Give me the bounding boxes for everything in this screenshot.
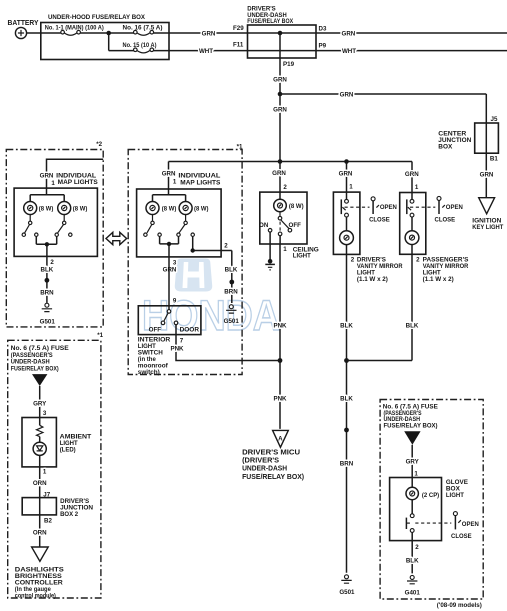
svg-text:OFF: OFF <box>149 327 162 334</box>
svg-text:FUSE/RELAY BOX): FUSE/RELAY BOX) <box>384 423 438 430</box>
svg-text:2: 2 <box>224 242 228 249</box>
svg-text:2: 2 <box>283 184 287 191</box>
svg-text:GRN: GRN <box>273 107 287 114</box>
wire PNK from pin 1 down to MICU <box>279 236 281 429</box>
wire BLK/BRN to ground <box>46 256 48 303</box>
label dashlights brightness controller <box>15 566 64 599</box>
ambient light box <box>22 418 56 467</box>
bulb passenger's vanity <box>405 217 419 245</box>
svg-text:BLK: BLK <box>225 267 238 274</box>
individual map lights unit box *1 <box>137 189 222 257</box>
label No.6 fuse passenger's under-dash <box>11 345 69 372</box>
svg-text:GRN: GRN <box>480 172 494 179</box>
svg-text:1: 1 <box>349 184 353 191</box>
switch left map light <box>144 215 162 237</box>
svg-text:BLK: BLK <box>406 558 419 565</box>
bulb left map light (8 W) <box>24 202 54 215</box>
wire GRN to interior light switch pin 9 <box>168 257 170 310</box>
wire pin 2 branch BLK <box>193 236 232 303</box>
svg-text:LIGHT: LIGHT <box>446 492 464 499</box>
junction node <box>106 31 111 36</box>
svg-text:CLOSE: CLOSE <box>435 217 456 224</box>
svg-text:(8 W): (8 W) <box>289 203 304 210</box>
ground G501 <box>224 305 240 326</box>
splice node <box>229 280 234 285</box>
wire GRY to ambient light <box>39 386 41 418</box>
svg-text:1: 1 <box>51 180 55 187</box>
switch passenger's vanity (lid) <box>407 199 436 217</box>
svg-text:D3: D3 <box>319 26 327 33</box>
svg-text:FUSE/RELAY BOX: FUSE/RELAY BOX <box>247 18 294 25</box>
svg-text:1: 1 <box>283 246 287 253</box>
wire GRN feed to map lights *1 <box>168 162 170 190</box>
fuse No. 16 (7.5 A) <box>123 25 163 36</box>
svg-text:(8 W): (8 W) <box>194 206 209 213</box>
svg-text:control module): control module) <box>15 592 56 599</box>
svg-text:DOOR: DOOR <box>180 327 200 334</box>
svg-text:WHT: WHT <box>342 48 356 55</box>
wire through junction box <box>39 498 41 515</box>
svg-text:GRY: GRY <box>33 401 47 408</box>
svg-text:(8 W): (8 W) <box>73 206 88 213</box>
svg-text:switch): switch) <box>138 369 160 376</box>
driver's MICU arrow A <box>273 430 289 447</box>
interior light switch box <box>138 306 201 335</box>
svg-text:P9: P9 <box>319 43 327 50</box>
svg-text:1: 1 <box>414 471 418 478</box>
switch left map light <box>22 215 38 237</box>
svg-text:2: 2 <box>415 544 419 551</box>
equivalence double arrow <box>106 232 127 244</box>
bulb left map light (8 W) <box>146 202 176 215</box>
fuse No. 1-1 (MAIN) (100 A) <box>45 25 104 36</box>
dashed box No.6 fuse glove box light ('08-09 models) <box>380 400 483 600</box>
fuse feed arrow (filled) <box>404 431 420 445</box>
svg-text:PNK: PNK <box>170 345 184 352</box>
wire feed tee <box>153 189 186 202</box>
label driver's vanity mirror light <box>357 257 403 284</box>
wire GRN feed into *2 box <box>47 159 104 188</box>
svg-text:WHT: WHT <box>199 48 213 55</box>
svg-text:GRN: GRN <box>273 77 287 84</box>
bulb right map light (8 W) <box>58 202 88 215</box>
ground G501 <box>339 575 355 596</box>
svg-text:GRN: GRN <box>202 31 216 38</box>
dashlights brightness controller arrow <box>32 547 49 561</box>
fuse No. 15 (10 A) <box>123 42 157 53</box>
svg-text:BLK: BLK <box>340 396 353 403</box>
svg-text:(8 W): (8 W) <box>162 206 177 213</box>
svg-text:HONDA: HONDA <box>142 292 280 340</box>
svg-text:G501: G501 <box>40 319 56 326</box>
wire feed tee <box>30 188 64 201</box>
svg-text:BRN: BRN <box>340 461 354 468</box>
wire GRN passenger's vanity branch <box>411 162 413 200</box>
svg-text:(DRIVER'S: (DRIVER'S <box>242 458 279 465</box>
svg-text:PNK: PNK <box>273 323 287 330</box>
node <box>191 248 195 252</box>
svg-text:BOX 2: BOX 2 <box>60 511 79 518</box>
node GRN branch <box>278 92 283 97</box>
wire BLK driver's vanity down <box>346 245 348 573</box>
svg-text:*1: *1 <box>237 144 243 151</box>
svg-text:G501: G501 <box>339 589 355 596</box>
wire BLK link from passenger vanity <box>347 360 413 362</box>
wire WHT row to under-dash box <box>154 50 507 52</box>
wire switch outputs joined to pin 3 <box>160 236 179 257</box>
svg-text:DRIVER'S MICU: DRIVER'S MICU <box>242 449 300 456</box>
switch external OPEN/CLOSE (passenger) <box>435 196 464 223</box>
svg-text:GRN: GRN <box>163 267 177 274</box>
wire battery to fuse row 1 <box>27 32 61 34</box>
bulb glove box light (2 CP) <box>406 478 439 500</box>
bulb right map light (8 W) <box>179 202 208 215</box>
svg-text:FUSE/RELAY BOX): FUSE/RELAY BOX) <box>11 365 59 372</box>
wire BLK to ground <box>411 532 413 573</box>
svg-text:(1.1 W x 2): (1.1 W x 2) <box>357 276 388 283</box>
switch ceiling light ON/OFF <box>259 212 301 236</box>
wire ORN to controller <box>39 515 41 547</box>
ground G501 <box>40 303 56 325</box>
label passenger's vanity mirror light <box>423 257 469 284</box>
dashed box *1 No.6 fuse (ambient light) <box>8 340 101 598</box>
svg-text:CLOSE: CLOSE <box>451 533 472 540</box>
svg-text:J5: J5 <box>491 116 498 123</box>
dashed box *2 (individual map lights variant) <box>6 150 103 327</box>
ground (ceiling light case) <box>265 259 275 270</box>
svg-text:BATTERY: BATTERY <box>8 20 39 27</box>
wire down to center junction box <box>485 94 487 198</box>
svg-text:3: 3 <box>43 410 47 417</box>
svg-text:BLK: BLK <box>41 267 54 274</box>
wire from junction down to row 2 <box>109 33 134 51</box>
ignition key light arrow <box>479 198 495 214</box>
svg-text:No. 1-1 (MAIN) (100 A): No. 1-1 (MAIN) (100 A) <box>45 25 104 32</box>
svg-text:UNDER-HOOD FUSE/RELAY BOX: UNDER-HOOD FUSE/RELAY BOX <box>48 14 146 21</box>
watermark Honda H logo <box>175 259 212 292</box>
dashed box *1 (individual map lights / interior light switch) <box>128 150 242 375</box>
svg-text:ORN: ORN <box>33 530 47 537</box>
svg-text:BLK: BLK <box>340 323 353 330</box>
switch external OPEN/CLOSE (driver) <box>369 197 397 224</box>
ground G401 <box>405 575 421 596</box>
svg-text:GRN: GRN <box>405 171 419 178</box>
svg-text:OPEN: OPEN <box>462 521 480 528</box>
svg-text:LIGHT: LIGHT <box>293 253 311 260</box>
svg-text:9: 9 <box>173 298 177 305</box>
node <box>167 242 171 246</box>
svg-text:*1: *1 <box>97 332 103 339</box>
svg-text:UNDER-DASH: UNDER-DASH <box>242 466 287 473</box>
svg-text:GRN: GRN <box>340 92 354 99</box>
svg-text:BLK: BLK <box>406 323 419 330</box>
bulb driver's vanity <box>340 217 354 245</box>
svg-text:No. 16 (7.5 A): No. 16 (7.5 A) <box>123 25 163 32</box>
center junction box <box>438 123 498 153</box>
glove box light box <box>390 478 442 541</box>
wire PNK from DOOR terminal <box>176 325 280 361</box>
svg-text:P19: P19 <box>283 61 295 68</box>
svg-text:7: 7 <box>180 337 184 344</box>
svg-text:G401: G401 <box>405 590 421 597</box>
svg-text:1: 1 <box>43 469 47 476</box>
svg-text:OFF: OFF <box>289 222 302 229</box>
svg-text:B1: B1 <box>490 156 498 163</box>
svg-text:(8 W): (8 W) <box>39 206 54 213</box>
wire BLK passenger's vanity down to link <box>411 245 413 361</box>
wire GRN row to under-dash box <box>154 32 507 34</box>
svg-text:GRN: GRN <box>162 171 176 178</box>
svg-text:F11: F11 <box>233 41 244 48</box>
driver's vanity mirror light box <box>333 192 360 254</box>
svg-text:1: 1 <box>415 184 419 191</box>
ceiling light box <box>260 192 307 244</box>
wire GRN branch to center junction box <box>280 93 486 95</box>
svg-text:1: 1 <box>173 179 177 186</box>
switch driver's vanity (lid) <box>341 199 369 217</box>
node ceiling branch <box>278 159 283 164</box>
svg-text:ON: ON <box>259 222 269 229</box>
svg-text:KEY LIGHT: KEY LIGHT <box>472 224 503 231</box>
label glove box light <box>446 479 468 499</box>
node BLK junction <box>344 358 349 363</box>
wire GRY to glove box light <box>411 445 413 478</box>
svg-text:G501: G501 <box>224 318 240 325</box>
svg-text:2: 2 <box>50 259 54 266</box>
label No.6 fuse passenger's under-dash (glove box) <box>383 403 438 429</box>
svg-text:BRN: BRN <box>224 289 238 296</box>
svg-text:OPEN: OPEN <box>446 204 464 211</box>
svg-text:OPEN: OPEN <box>380 204 398 211</box>
switch right map light <box>55 215 72 237</box>
individual map lights unit box *2 <box>14 188 97 256</box>
svg-text:ORN: ORN <box>33 480 47 487</box>
passenger's vanity mirror light box <box>400 193 426 255</box>
svg-text:GRN: GRN <box>339 171 353 178</box>
node PNK junction <box>278 358 283 363</box>
svg-text:A: A <box>278 436 283 443</box>
node <box>45 242 49 246</box>
wire GRN driver's vanity branch <box>346 162 348 200</box>
switch right map light <box>177 215 195 237</box>
splice node <box>344 428 349 433</box>
svg-text:F29: F29 <box>233 25 244 32</box>
svg-text:BOX: BOX <box>438 144 453 151</box>
svg-text:*2: *2 <box>96 141 102 148</box>
svg-text:MAP LIGHTS: MAP LIGHTS <box>180 179 220 186</box>
svg-text:(1.1 W x 2): (1.1 W x 2) <box>423 276 454 283</box>
switch interior light <box>149 310 200 334</box>
splice node <box>45 278 50 283</box>
switch glove box light <box>406 500 451 533</box>
label driver's MICU <box>242 449 304 481</box>
wire P19 vertical inside box <box>279 33 281 58</box>
label interior light switch <box>138 337 171 377</box>
svg-text:(2 CP): (2 CP) <box>422 492 439 499</box>
svg-text:('08-09 models): ('08-09 models) <box>437 602 482 609</box>
svg-text:2: 2 <box>416 257 420 264</box>
svg-text:GRN: GRN <box>342 31 356 38</box>
wire <box>80 32 133 34</box>
svg-text:PNK: PNK <box>273 396 287 403</box>
wire ON terminal to ground <box>269 232 271 259</box>
label ambient light <box>60 434 92 454</box>
svg-text:B2: B2 <box>44 517 52 524</box>
driver's junction box 2 <box>22 498 93 518</box>
driver's under-dash fuse/relay box <box>247 6 316 59</box>
switch external OPEN/CLOSE (glove box) <box>451 512 479 541</box>
wire GRN from P19 down <box>279 58 281 162</box>
svg-text:GRN: GRN <box>272 170 286 177</box>
wire switch outputs joined <box>36 236 56 256</box>
bulb ceiling light (8 W) <box>274 199 304 212</box>
wire into resistor <box>39 418 41 426</box>
wire ORN down to junction box <box>39 455 41 497</box>
svg-text:FUSE/RELAY BOX): FUSE/RELAY BOX) <box>242 474 304 481</box>
node driver's vanity branch <box>344 159 349 164</box>
node on F29-D3 row <box>278 31 283 36</box>
battery <box>8 20 39 39</box>
wire resistor to LED <box>39 437 41 443</box>
svg-text:3: 3 <box>173 259 177 266</box>
svg-text:GRY: GRY <box>406 459 420 466</box>
svg-text:(LED): (LED) <box>60 447 76 454</box>
LED (ambient light) <box>33 442 46 455</box>
svg-text:CLOSE: CLOSE <box>369 217 390 224</box>
fuse feed arrow (filled) <box>32 374 47 386</box>
svg-text:MAP LIGHTS: MAP LIGHTS <box>58 179 98 186</box>
wire GRN ceiling light branch <box>279 162 281 200</box>
svg-text:BRN: BRN <box>40 290 54 297</box>
resistor (ambient light) <box>37 425 43 436</box>
wire GRN distribution line <box>169 161 413 163</box>
svg-text:2: 2 <box>351 257 355 264</box>
svg-text:GRN: GRN <box>40 173 54 180</box>
